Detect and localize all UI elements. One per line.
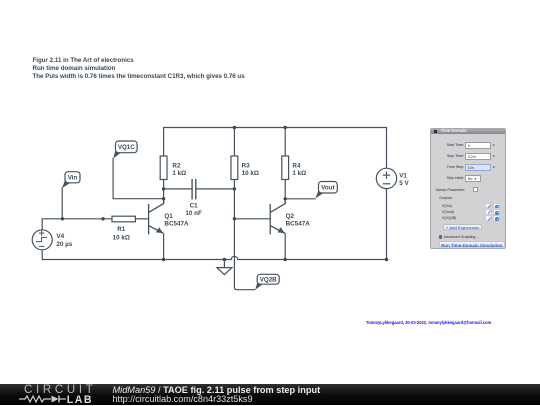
svg-text:5 V: 5 V — [399, 180, 409, 187]
svg-text:10 kΩ: 10 kΩ — [242, 170, 259, 177]
junction node Vin tap — [61, 217, 64, 220]
svg-text:R2: R2 — [172, 162, 181, 169]
wire C1 right — [196, 188, 235, 190]
svg-text:R1: R1 — [117, 226, 126, 233]
svg-text:Vin: Vin — [68, 175, 78, 182]
bottom site bar — [0, 384, 540, 405]
junction node Q1 collector / VQ1C — [162, 197, 165, 200]
svg-text:1 kΩ: 1 kΩ — [172, 170, 186, 177]
svg-text:1 kΩ: 1 kΩ — [292, 170, 306, 177]
flag VQ2B — [255, 274, 279, 290]
junction node C1/R3 — [233, 187, 236, 190]
flag VQ1C — [113, 141, 137, 159]
junction node V1 bottom — [385, 258, 388, 261]
svg-text:10 kΩ: 10 kΩ — [113, 235, 130, 242]
wire R1 to Q1 base — [135, 218, 148, 220]
junction node Q1 emitter / ground rail — [162, 258, 165, 261]
wire R4 bottom to Q2 collector — [284, 180, 286, 205]
wire Q2 collector to Vout — [285, 198, 315, 200]
flag Vout — [315, 182, 337, 199]
Time Domain simulation panel — [430, 128, 506, 249]
wire Q2 emitter to ground rail — [284, 234, 286, 260]
voltage source V1 — [376, 168, 396, 188]
svg-text:VQ1C: VQ1C — [118, 144, 135, 151]
wire bottom ground rail with hop — [42, 189, 386, 260]
wire R4 top stub — [284, 128, 286, 157]
capacitor C1 — [192, 179, 196, 199]
svg-text:BC547A: BC547A — [286, 221, 311, 228]
svg-text:R4: R4 — [292, 162, 301, 169]
resistor R1 — [112, 216, 135, 222]
svg-text:20 µs: 20 µs — [56, 241, 72, 248]
junction node base-rail mid — [101, 217, 104, 220]
flag Vin — [62, 172, 80, 189]
wire V4 top to base rail — [42, 219, 112, 230]
wire VQ1C flag to Q1 collector — [113, 158, 164, 199]
resistor R4 — [282, 156, 289, 180]
svg-text:10 nF: 10 nF — [185, 210, 202, 217]
junction node R2/C1 — [162, 187, 165, 190]
junction node top rail R4 — [284, 126, 287, 129]
wire top rail — [164, 128, 387, 169]
resistor R2 — [160, 156, 167, 180]
junction node ground tap — [223, 258, 226, 261]
author/email note — [366, 320, 491, 325]
voltage source V4 — [32, 230, 52, 250]
svg-text:Vout: Vout — [321, 185, 334, 192]
wire R3 top stub — [233, 128, 235, 157]
wire C1 left — [164, 188, 192, 190]
resistor R3 — [231, 156, 238, 180]
junction node R3/Q2 base — [233, 217, 236, 220]
wire Q2 base — [234, 218, 270, 220]
junction node Q2 emitter / ground rail — [284, 258, 287, 261]
wire Vin flag to base rail — [61, 188, 63, 219]
wire R2 bottom to Q1 collector — [163, 180, 165, 205]
ground symbol — [217, 260, 232, 275]
svg-text:V1: V1 — [399, 172, 407, 179]
junction node Q2 collector / Vout — [284, 197, 287, 200]
transistor Q1 — [149, 199, 164, 235]
schematic note text — [33, 57, 245, 80]
svg-text:R3: R3 — [242, 162, 251, 169]
transistor Q2 — [270, 199, 285, 235]
svg-text:V4: V4 — [56, 233, 64, 240]
wire Q1 emitter to ground rail — [163, 234, 165, 260]
svg-text:VQ2B: VQ2B — [260, 277, 277, 284]
svg-text:Q1: Q1 — [164, 213, 173, 220]
svg-text:Q2: Q2 — [286, 213, 295, 220]
svg-text:C1: C1 — [190, 203, 199, 210]
svg-text:BC547A: BC547A — [164, 220, 189, 227]
junction node top rail R3 — [233, 126, 236, 129]
wire R3 bottom / VQ2B branch — [234, 180, 255, 290]
